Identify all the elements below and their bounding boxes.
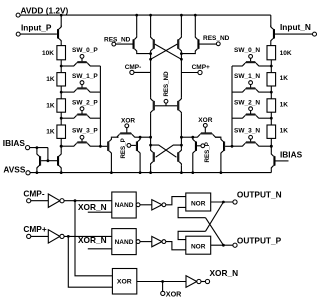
resistor R4 1K (P side)	[46, 112, 65, 138]
transistor RES_P right	[193, 137, 197, 172]
wire NAND1 to INV3	[140, 204, 152, 206]
svg-text:Input_N: Input_N	[280, 22, 311, 32]
inverter INV2	[48, 230, 64, 243]
svg-text:OUTPUT_P: OUTPUT_P	[237, 235, 282, 245]
svg-text:XOR_N: XOR_N	[78, 235, 107, 245]
transistor RES_P left	[136, 137, 140, 172]
svg-text:CMP+: CMP+	[23, 224, 46, 234]
transistor input pair left (gate from ladder tap)	[100, 137, 118, 172]
wire XOR3 output	[137, 281, 186, 283]
wire cross-couple upper X	[155, 44, 182, 59]
transistor Q2 mirror output	[57, 146, 61, 172]
svg-text:SW_2_N: SW_2_N	[234, 99, 260, 106]
transistor switch SW_1_P	[61, 73, 100, 92]
transistor T4 load (gate RES_ND right)	[181, 15, 199, 54]
node CMP- terminal upper	[125, 64, 151, 75]
wire AVSS rail	[30, 172, 271, 174]
node Input_P terminal	[16, 22, 52, 36]
node XOR_N terminal bottom	[205, 268, 238, 283]
wire INV1 out	[65, 200, 112, 202]
transistor T3 cross-coupled right	[177, 15, 181, 72]
svg-text:SW_3_P: SW_3_P	[72, 128, 98, 135]
inverter INV3	[152, 200, 166, 210]
transistor switch SW_2_P	[61, 99, 100, 118]
wire NAND2 to INV4	[140, 241, 152, 243]
label RES_P rotated right	[204, 142, 211, 162]
wire IBIAS to mirror	[30, 147, 48, 149]
gate NAND2	[112, 229, 140, 255]
transistor latch right	[177, 137, 181, 172]
wire NOR1 second input step	[178, 207, 205, 217]
svg-text:SW_1_N: SW_1_N	[234, 73, 260, 80]
wire XOR_N stub 2	[88, 248, 112, 250]
transistor T1 load (gate RES_ND left)	[133, 15, 151, 54]
transistor XOR switch left	[117, 132, 151, 137]
transistor M1 input P	[57, 15, 61, 45]
transistor reset left	[151, 72, 166, 137]
svg-text:10K: 10K	[280, 50, 292, 57]
wire Input_P to M1 gate	[20, 33, 57, 35]
svg-text:RES_ND: RES_ND	[104, 36, 131, 43]
resistor R6 1K (N side)	[267, 60, 288, 86]
svg-text:RES_ND: RES_ND	[163, 71, 170, 97]
wire NOR1 output	[211, 201, 233, 203]
inverter INV4	[152, 236, 166, 246]
svg-text:NOR: NOR	[191, 200, 206, 207]
svg-text:CMP-: CMP-	[23, 189, 44, 199]
wire mirror gate bus	[41, 160, 57, 162]
transistor XOR switch right	[193, 132, 221, 137]
wire INV5 to XOR_N terminal	[201, 281, 205, 283]
wire INV3 to NOR1	[166, 197, 186, 205]
transistor reset right	[166, 73, 181, 138]
svg-text:AVSS: AVSS	[3, 164, 25, 174]
node AVSS terminal	[3, 164, 30, 175]
transistor switch SW_0_P	[61, 47, 100, 66]
svg-text:CMP+: CMP+	[192, 64, 210, 71]
transistor T2 cross-coupled left	[151, 15, 155, 72]
transistor Q1 mirror diode-connected	[37, 148, 41, 173]
svg-text:SW_0_N: SW_0_N	[234, 47, 260, 54]
transistor Q3 mirror right	[271, 146, 275, 172]
node RES_ND terminal left	[104, 36, 133, 46]
node CMP- terminal bottom	[23, 189, 44, 203]
wire INV4 to NOR2	[166, 242, 186, 250]
resistor R2 1K (P side)	[46, 60, 65, 86]
resistor R3 1K (P side)	[46, 86, 65, 112]
svg-text:10K: 10K	[42, 50, 54, 57]
label RES_ND rotated mid	[163, 71, 170, 97]
resistor R7 1K (N side)	[267, 86, 288, 112]
transistor latch left	[151, 137, 155, 172]
wire NOR2 output	[211, 244, 233, 246]
wire AVDD rail	[20, 14, 271, 16]
wire CMP+ to inverter	[31, 235, 49, 237]
gate XOR3 block	[112, 269, 136, 295]
svg-text:IBIAS: IBIAS	[280, 149, 303, 159]
svg-text:SW_3_N: SW_3_N	[234, 128, 260, 135]
wire NOR2 second input step	[178, 231, 205, 239]
svg-text:XOR: XOR	[117, 279, 132, 286]
transistor M2 input N	[271, 15, 275, 45]
node CMP+ terminal upper	[181, 64, 210, 75]
wire CMP- delayed vertical	[75, 201, 112, 276]
svg-text:NOR: NOR	[191, 244, 206, 251]
node CMP+ terminal bottom	[23, 224, 46, 238]
node OUTPUT_N terminal	[233, 190, 282, 204]
wire CMP- to inverter	[31, 200, 49, 202]
node Input_N terminal	[280, 22, 317, 36]
wire CMP+ delayed vertical	[68, 236, 112, 287]
resistor R1 10K (P side)	[42, 46, 66, 60]
svg-text:IBIAS: IBIAS	[3, 138, 26, 148]
wire INV2 out	[65, 235, 112, 237]
svg-text:RES_P: RES_P	[120, 138, 127, 158]
transistor switch SW_1_N	[232, 73, 271, 92]
svg-text:Input_P: Input_P	[21, 22, 52, 32]
transistor switch SW_3_P	[61, 128, 100, 147]
node AVDD (1.2V) supply terminal	[16, 5, 68, 17]
gate NOR2	[186, 236, 211, 254]
svg-text:SW_2_P: SW_2_P	[72, 99, 98, 106]
transistor switch SW_2_N	[232, 99, 271, 118]
svg-text:1K: 1K	[280, 75, 289, 82]
svg-text:CMP-: CMP-	[125, 64, 142, 71]
svg-text:1K: 1K	[46, 102, 55, 109]
wire switch rail P side	[99, 66, 101, 146]
svg-text:SW_1_P: SW_1_P	[72, 73, 98, 80]
node RES_P gate terminal left	[127, 144, 136, 148]
wire XOR_N stub 1	[88, 211, 112, 213]
svg-text:XOR: XOR	[198, 117, 212, 124]
inverter INV5	[186, 276, 201, 288]
node RES_ND terminal right	[199, 35, 229, 46]
svg-text:XOR_N: XOR_N	[78, 202, 107, 212]
svg-text:XOR_N: XOR_N	[210, 268, 239, 278]
node RES_P gate terminal right	[197, 144, 205, 148]
gate NOR1	[186, 193, 211, 211]
transistor switch SW_3_N	[232, 128, 271, 147]
svg-text:XOR: XOR	[121, 118, 135, 125]
svg-text:1K: 1K	[46, 129, 55, 136]
transistor input pair right	[215, 137, 232, 172]
node XOR gate terminal right	[198, 117, 212, 132]
node RES_ND gate terminal mid	[164, 99, 168, 105]
svg-text:1K: 1K	[280, 128, 289, 135]
label RES_P rotated left	[120, 138, 127, 158]
node XOR gate terminal left	[121, 118, 135, 133]
transistor switch SW_0_N	[232, 47, 271, 66]
gate NAND1	[112, 192, 140, 218]
wire Input_N to M2 gate	[275, 33, 313, 35]
inverter INV1	[48, 194, 64, 207]
svg-text:SW_0_P: SW_0_P	[72, 47, 98, 54]
node OUTPUT_P terminal	[233, 235, 282, 247]
svg-text:NAND: NAND	[115, 239, 134, 246]
wire SR cross-couple diagonals	[206, 218, 224, 246]
node IBIAS terminal (left)	[3, 138, 30, 150]
wire switch rail N side	[231, 66, 233, 146]
svg-text:1K: 1K	[46, 76, 55, 83]
resistor R8 1K (N side)	[267, 112, 288, 138]
svg-text:XOR: XOR	[166, 289, 182, 298]
svg-text:NAND: NAND	[115, 202, 134, 209]
wire cross-couple lower X	[151, 145, 177, 157]
svg-text:OUTPUT_N: OUTPUT_N	[237, 190, 282, 200]
svg-text:1K: 1K	[280, 101, 289, 108]
node XOR terminal bottom	[161, 282, 182, 299]
resistor R5 10K (N side)	[267, 46, 292, 60]
node IBIAS stub right	[276, 149, 303, 161]
svg-text:RES_ND: RES_ND	[203, 35, 230, 42]
